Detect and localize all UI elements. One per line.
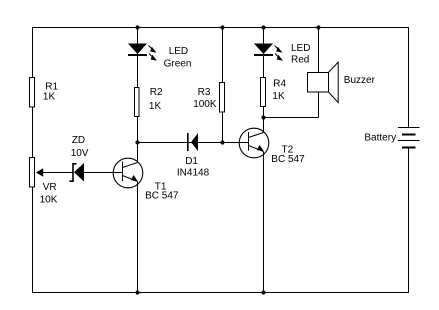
svg-text:R3: R3 [198, 87, 211, 98]
svg-text:LED: LED [291, 43, 310, 54]
svg-text:LED: LED [169, 46, 188, 57]
svg-text:100K: 100K [193, 99, 217, 110]
svg-text:IN4148: IN4148 [177, 168, 210, 179]
svg-text:10K: 10K [40, 194, 58, 205]
svg-text:VR: VR [43, 182, 57, 193]
svg-text:1K: 1K [149, 101, 162, 112]
svg-text:1K: 1K [43, 92, 56, 103]
svg-text:ZD: ZD [72, 135, 85, 146]
svg-text:BC 547: BC 547 [145, 190, 179, 201]
svg-text:Red: Red [291, 54, 309, 65]
svg-text:BC 547: BC 547 [271, 154, 305, 165]
svg-text:Battery: Battery [364, 132, 396, 143]
svg-text:Green: Green [164, 58, 192, 69]
svg-text:R4: R4 [273, 79, 286, 90]
svg-text:D1: D1 [185, 156, 198, 167]
svg-text:Buzzer: Buzzer [344, 75, 376, 86]
svg-text:1K: 1K [272, 91, 285, 102]
svg-text:10V: 10V [71, 148, 89, 159]
svg-text:R2: R2 [150, 87, 163, 98]
